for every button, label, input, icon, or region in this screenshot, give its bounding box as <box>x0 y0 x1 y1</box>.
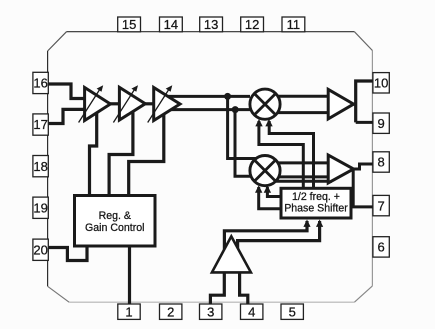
node junction dot B <box>232 106 239 113</box>
wire buffer1 output to pin9 <box>356 121 374 124</box>
pin 6 <box>373 237 389 257</box>
wire LO mixer2 right <box>267 187 283 197</box>
wire pin16 input <box>48 84 86 99</box>
pin 2 <box>160 304 182 319</box>
wire oscillator amp output2 to phase shifter <box>238 221 320 249</box>
svg-text:13: 13 <box>204 17 218 32</box>
wire pin17 input <box>48 109 86 123</box>
wire oscillator amp output1 to phase shifter <box>224 221 307 250</box>
block U1 Reg. & Gain Control <box>75 196 156 247</box>
phase shifter input arrow right <box>316 220 323 227</box>
wire buffer1 output to pin10 <box>354 81 374 122</box>
svg-text:17: 17 <box>33 117 47 132</box>
wire oscillator amp input pin3 <box>210 272 224 304</box>
svg-text:2: 2 <box>167 304 174 319</box>
wire node drop to mixer2 lower <box>235 110 253 177</box>
svg-text:Reg. &: Reg. & <box>99 210 131 222</box>
pin 13 <box>200 17 223 32</box>
amplifier A3 (variable gain) <box>154 88 180 121</box>
svg-text:10: 10 <box>374 76 388 91</box>
oscillator amp (up) <box>212 236 251 272</box>
wire LO route A mixer1 left <box>269 121 313 190</box>
arrow through amp A3 <box>148 85 173 122</box>
pin 11 <box>282 17 305 32</box>
wire gain control to pin1 <box>128 246 131 304</box>
svg-text:14: 14 <box>164 17 178 32</box>
buffer B1 <box>328 89 353 119</box>
svg-text:16: 16 <box>33 76 47 91</box>
wire pin20 to gain control <box>48 246 87 261</box>
svg-text:9: 9 <box>377 116 384 131</box>
mixer M1 LO arrow left <box>255 119 262 126</box>
mixer M2 <box>250 156 280 186</box>
wire mixer2 to buffer2 upper <box>278 161 329 164</box>
wire node drop to mixer2 upper <box>228 96 257 158</box>
wire mixer1 to buffer1 lower <box>278 111 329 114</box>
buffer B2 <box>328 155 353 183</box>
wire oscillator amp input pin4 <box>240 272 248 304</box>
phase shifter input arrow left <box>303 220 310 227</box>
svg-text:15: 15 <box>122 17 136 32</box>
pin 12 <box>241 17 264 32</box>
pin 8 <box>373 152 389 172</box>
pin 10 <box>373 73 389 93</box>
svg-text:Gain Control: Gain Control <box>85 222 144 234</box>
svg-text:20: 20 <box>33 242 47 257</box>
pin 19 <box>33 197 48 218</box>
svg-text:7: 7 <box>377 198 384 213</box>
mixer M1 LO arrow right <box>265 119 272 126</box>
svg-text:1/2 freq. +: 1/2 freq. + <box>292 191 340 203</box>
wire LO mixer2 left <box>259 187 283 209</box>
pin 18 <box>33 156 48 177</box>
wire gain control tap stage1 <box>90 112 97 196</box>
wire amp3 to mixer1 upper <box>168 95 250 98</box>
pin 17 <box>33 114 48 135</box>
wire LO route B mixer1 right <box>259 121 303 190</box>
wire mixer2 to buffer2 lower <box>279 175 330 178</box>
mixer M2 LO arrow right <box>264 185 271 192</box>
svg-text:6: 6 <box>377 240 384 255</box>
svg-text:4: 4 <box>248 304 255 319</box>
pin 16 <box>33 72 48 93</box>
svg-text:19: 19 <box>33 200 47 215</box>
mixer M1 <box>250 89 280 119</box>
svg-text:3: 3 <box>207 304 214 319</box>
wire gain control tap stage3 <box>129 113 164 196</box>
svg-text:1: 1 <box>125 304 132 319</box>
node junction dot A <box>224 93 231 100</box>
svg-text:5: 5 <box>289 304 296 319</box>
svg-text:12: 12 <box>245 17 259 32</box>
wire mixer2 to buffer2 edge tap <box>274 180 332 183</box>
pin 5 <box>281 304 303 319</box>
amplifier A1 (variable gain) <box>85 88 111 121</box>
pin 7 <box>373 195 389 215</box>
svg-text:18: 18 <box>33 159 47 174</box>
pin 3 <box>200 304 222 319</box>
pin 9 <box>373 113 389 133</box>
pin 20 <box>33 239 48 260</box>
IC package outline <box>48 32 373 303</box>
arrow through amp A2 <box>113 85 138 122</box>
wire amp3 to mixer1 lower <box>171 108 251 111</box>
svg-text:11: 11 <box>287 17 301 32</box>
pin 15 <box>118 17 141 32</box>
wire buffer2 output to pin8 <box>354 164 374 169</box>
pin 4 <box>241 304 263 319</box>
svg-text:Phase Shifter: Phase Shifter <box>284 203 348 215</box>
wire gain control tap stage2 <box>109 111 133 197</box>
pin 1 <box>118 304 140 319</box>
arrow through amp A1 <box>79 85 104 122</box>
wire buffer2 output to pin7 <box>353 170 373 207</box>
svg-text:8: 8 <box>377 155 384 170</box>
block U2 1/2 freq + Phase Shifter <box>281 188 351 218</box>
pin 14 <box>160 17 183 32</box>
wire mixer1 to buffer1 upper <box>278 95 329 98</box>
mixer M2 LO arrow left <box>255 185 262 192</box>
wire interstage amp1-amp2 <box>110 102 122 105</box>
amplifier A2 (variable gain) <box>119 87 145 120</box>
wire interstage amp2-amp3 <box>145 102 156 105</box>
